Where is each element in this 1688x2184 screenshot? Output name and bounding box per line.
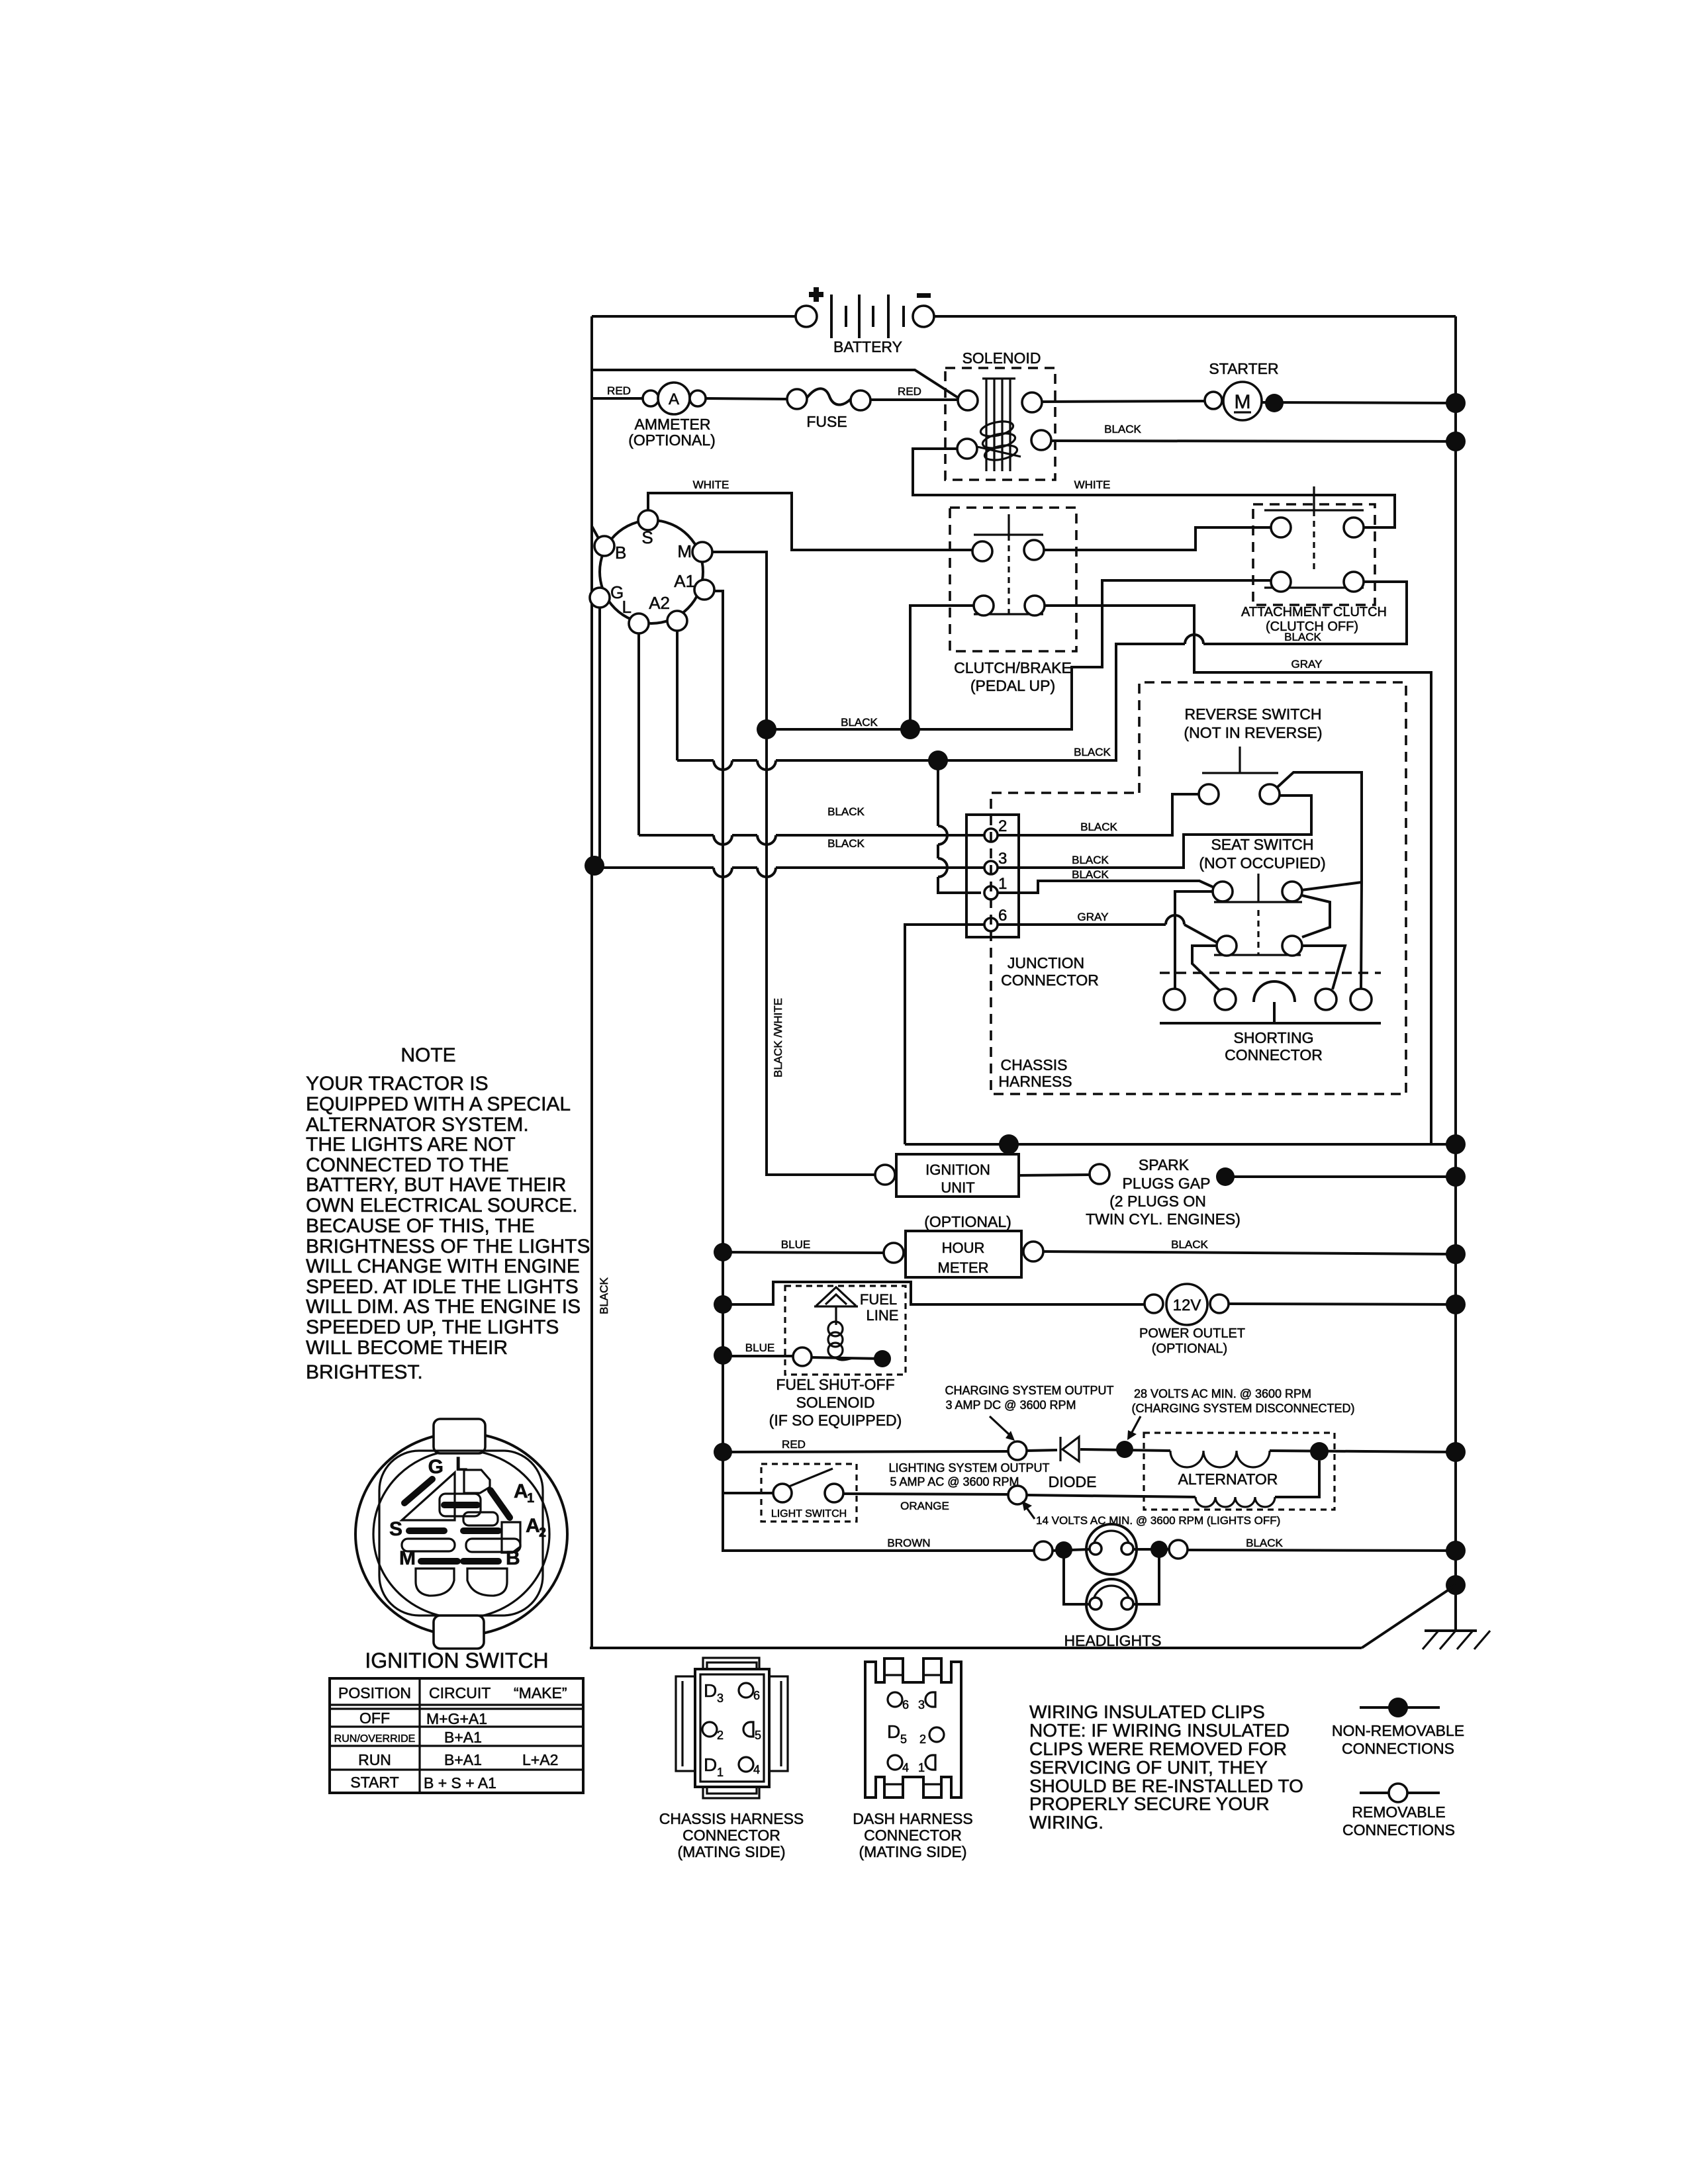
headlight DS2 xyxy=(1064,1550,1161,1649)
node M-line junction xyxy=(757,719,776,739)
svg-text:SEAT SWITCH: SEAT SWITCH xyxy=(1211,836,1313,853)
svg-text:SHORTING: SHORTING xyxy=(1234,1029,1314,1046)
label 14 volts ac min xyxy=(1022,1501,1280,1527)
svg-text:ALTERNATOR SYSTEM.: ALTERNATOR SYSTEM. xyxy=(306,1114,529,1136)
svg-text:EQUIPPED WITH A SPECIAL: EQUIPPED WITH A SPECIAL xyxy=(306,1093,571,1115)
svg-text:3: 3 xyxy=(717,1692,724,1705)
wire seat top-left to shorting pin 1 xyxy=(1175,891,1213,989)
svg-text:L: L xyxy=(455,1453,467,1475)
svg-text:IGNITION SWITCH: IGNITION SWITCH xyxy=(365,1649,548,1672)
wire chassis bottom to right border xyxy=(905,1143,1456,1146)
svg-text:A: A xyxy=(526,1515,540,1537)
wire right border vertical xyxy=(1454,316,1457,1585)
svg-text:BLACK: BLACK xyxy=(1246,1537,1283,1549)
svg-text:JUNCTION: JUNCTION xyxy=(1008,954,1084,972)
wire junction pin 1 to seat switch xyxy=(998,868,1214,893)
wire A2 terminal down xyxy=(676,631,679,760)
node right border headlight row xyxy=(1446,1541,1466,1561)
svg-text:WILL DIM. AS THE ENGINE IS: WILL DIM. AS THE ENGINE IS xyxy=(306,1296,581,1318)
svg-text:FUSE: FUSE xyxy=(806,413,847,430)
terminal M xyxy=(677,541,712,562)
svg-text:WILL BECOME THEIR: WILL BECOME THEIR xyxy=(306,1337,508,1359)
dash harness connector J4 (mating side) xyxy=(853,1659,972,1860)
wire A2 row black to junction node xyxy=(677,760,938,770)
svg-text:RED: RED xyxy=(898,385,921,398)
wiring insulated clips note xyxy=(1029,1702,1303,1833)
wire bottom rail xyxy=(590,1647,1362,1649)
node alternator input xyxy=(1116,1441,1133,1458)
node right border spark row xyxy=(1446,1167,1466,1187)
wire clutch/brake to attachment clutch (white) xyxy=(1044,527,1271,550)
svg-text:FUEL SHUT-OFF: FUEL SHUT-OFF xyxy=(776,1376,894,1393)
svg-text:HARNESS: HARNESS xyxy=(998,1073,1072,1090)
wire drop to junction pin 1 with hops xyxy=(938,760,981,893)
label 28 volts ac min xyxy=(1127,1387,1355,1440)
wire G row black to junction pin 3 xyxy=(594,837,984,877)
terminal L xyxy=(622,597,649,633)
svg-text:CHARGING SYSTEM OUTPUT: CHARGING SYSTEM OUTPUT xyxy=(945,1384,1113,1397)
svg-text:BLACK: BLACK xyxy=(1104,423,1141,435)
terminal A1 xyxy=(674,571,714,600)
terminal A2 xyxy=(649,593,687,631)
charging output connection xyxy=(1008,1441,1027,1460)
svg-text:B+A1: B+A1 xyxy=(444,1729,482,1746)
wire power outlet row xyxy=(723,1282,1145,1304)
lighting output connection xyxy=(1008,1486,1027,1504)
wire light switch tap xyxy=(723,1492,773,1494)
ignition switch connector ring xyxy=(600,520,703,623)
wire reverse switch to seat/shorting vertical xyxy=(1277,772,1362,989)
svg-text:RUN/OVERRIDE: RUN/OVERRIDE xyxy=(334,1733,416,1745)
wire G terminal down xyxy=(598,608,601,868)
label BROWN xyxy=(887,1537,930,1549)
node A1-line red tap xyxy=(714,1443,732,1461)
svg-text:3: 3 xyxy=(918,1698,925,1711)
svg-text:2: 2 xyxy=(998,817,1007,835)
svg-text:POWER OUTLET: POWER OUTLET xyxy=(1139,1326,1245,1341)
svg-text:OFF: OFF xyxy=(359,1709,390,1727)
shorting connector J2 xyxy=(1160,973,1381,1064)
svg-text:BLACK: BLACK xyxy=(1072,854,1109,866)
svg-text:A: A xyxy=(669,390,679,408)
svg-text:BLACK: BLACK xyxy=(1171,1238,1208,1251)
svg-text:CONNECTIONS: CONNECTIONS xyxy=(1342,1740,1454,1757)
label BLACK/WHITE rotated xyxy=(772,998,784,1077)
wire solenoid to starter xyxy=(1042,401,1205,402)
node headlight right xyxy=(1150,1541,1168,1558)
svg-text:ORANGE: ORANGE xyxy=(900,1500,949,1512)
svg-text:(2 PLUGS ON: (2 PLUGS ON xyxy=(1109,1193,1206,1210)
svg-text:CONNECTOR: CONNECTOR xyxy=(864,1827,962,1844)
svg-text:REMOVABLE: REMOVABLE xyxy=(1352,1803,1445,1821)
svg-text:SPEEDED UP, THE LIGHTS: SPEEDED UP, THE LIGHTS xyxy=(306,1316,559,1338)
svg-text:HOUR: HOUR xyxy=(942,1240,985,1256)
svg-text:B+A1: B+A1 xyxy=(444,1751,482,1768)
node right border hour meter row xyxy=(1446,1244,1466,1264)
light switch S6 xyxy=(761,1464,857,1522)
svg-text:CONNECTOR: CONNECTOR xyxy=(1225,1046,1323,1064)
node alternator output xyxy=(1310,1442,1329,1461)
ground symbol xyxy=(1423,1585,1490,1649)
wire black attachment clutch return xyxy=(938,582,1407,760)
wire junction pin 2 to reverse switch xyxy=(998,794,1199,835)
wire seat lower-left to shorting pin 2 xyxy=(1192,946,1221,991)
svg-text:D: D xyxy=(887,1721,900,1742)
svg-text:WIRING.: WIRING. xyxy=(1029,1812,1103,1833)
node ignition unit top tap xyxy=(999,1134,1019,1154)
svg-text:BRIGHTEST.: BRIGHTEST. xyxy=(306,1361,423,1383)
svg-text:(MATING SIDE): (MATING SIDE) xyxy=(677,1843,785,1860)
chassis harness dashed boundary xyxy=(991,682,1406,1094)
svg-text:CIRCUIT: CIRCUIT xyxy=(429,1684,491,1702)
svg-text:S: S xyxy=(389,1518,402,1540)
svg-text:AMMETER: AMMETER xyxy=(635,416,711,433)
svg-text:PROPERLY SECURE YOUR: PROPERLY SECURE YOUR xyxy=(1029,1794,1270,1814)
svg-text:DIODE: DIODE xyxy=(1049,1473,1097,1490)
wire orange light switch to alternator xyxy=(843,1494,1008,1512)
wire L row black to junction pin 2 xyxy=(639,805,984,844)
svg-text:2: 2 xyxy=(539,1525,546,1540)
svg-text:THE LIGHTS ARE NOT: THE LIGHTS ARE NOT xyxy=(306,1134,516,1156)
svg-text:(IF SO EQUIPPED): (IF SO EQUIPPED) xyxy=(769,1412,902,1429)
node attachment return junction xyxy=(928,751,948,770)
wire left border vertical (black) xyxy=(590,316,593,1648)
wire B terminal to border xyxy=(592,526,599,539)
terminal B xyxy=(594,536,626,563)
svg-text:SPARK: SPARK xyxy=(1139,1156,1190,1173)
wire ammeter to fuse xyxy=(706,398,787,399)
headlight DS1 xyxy=(1053,1524,1169,1574)
svg-text:RUN: RUN xyxy=(358,1751,391,1768)
wire seat lower-right to shorting pin 3 xyxy=(1302,946,1345,989)
wire diode to alternator xyxy=(1080,1449,1170,1451)
node G to border junction xyxy=(585,856,604,876)
power outlet 12V (optional) xyxy=(1139,1284,1245,1356)
svg-text:12V: 12V xyxy=(1173,1297,1201,1314)
chassis harness connector J3 (mating side) xyxy=(659,1658,804,1860)
spark plugs gap E1 xyxy=(1086,1156,1241,1228)
wire battery feed to solenoid xyxy=(592,370,959,398)
node headlight left xyxy=(1055,1541,1072,1559)
svg-text:NON-REMOVABLE: NON-REMOVABLE xyxy=(1332,1722,1464,1739)
wire red to ammeter xyxy=(592,385,643,398)
svg-text:IGNITION: IGNITION xyxy=(925,1161,990,1178)
wire alternator top to right border xyxy=(1270,1451,1456,1452)
svg-text:6: 6 xyxy=(902,1698,909,1711)
svg-text:UNIT: UNIT xyxy=(941,1179,974,1196)
fuel shut-off solenoid L1 xyxy=(769,1286,906,1429)
svg-text:4: 4 xyxy=(902,1761,909,1774)
svg-text:A2: A2 xyxy=(649,593,670,613)
svg-text:METER: METER xyxy=(938,1259,989,1276)
svg-text:2: 2 xyxy=(717,1729,724,1742)
svg-text:(NOT OCCUPIED): (NOT OCCUPIED) xyxy=(1199,854,1325,872)
svg-text:NOTE: NOTE xyxy=(400,1044,455,1066)
attachment clutch switch S3 (clutch off) xyxy=(1241,486,1387,634)
wire lighting circle to coil xyxy=(1027,1495,1196,1497)
svg-text:BLACK: BLACK xyxy=(841,716,878,729)
svg-text:L: L xyxy=(622,597,632,617)
svg-text:D: D xyxy=(704,1680,717,1701)
svg-text:B: B xyxy=(615,543,626,563)
wire battery positive to left border xyxy=(592,315,806,318)
svg-text:SOLENOID: SOLENOID xyxy=(796,1394,875,1411)
svg-text:ATTACHMENT CLUTCH: ATTACHMENT CLUTCH xyxy=(1241,605,1387,619)
diode D1 xyxy=(1049,1437,1097,1490)
svg-text:BLACK /WHITE: BLACK /WHITE xyxy=(772,998,784,1077)
svg-text:(CHARGING SYSTEM DISCONNECTED): (CHARGING SYSTEM DISCONNECTED) xyxy=(1131,1402,1354,1415)
svg-text:SPEED. AT IDLE THE LIGHTS: SPEED. AT IDLE THE LIGHTS xyxy=(306,1276,579,1298)
svg-text:BECAUSE OF THIS, THE: BECAUSE OF THIS, THE xyxy=(306,1215,535,1237)
svg-text:B: B xyxy=(506,1547,520,1569)
wire diagonal to bottom rail xyxy=(1362,1585,1456,1648)
svg-text:WHITE: WHITE xyxy=(693,478,729,491)
svg-text:CONNECTOR: CONNECTOR xyxy=(1001,972,1099,989)
solenoid K1 xyxy=(945,349,1055,480)
svg-text:LIGHT SWITCH: LIGHT SWITCH xyxy=(771,1508,847,1520)
wire solenoid black to right border xyxy=(1051,423,1456,441)
svg-text:S: S xyxy=(641,527,653,547)
svg-text:G: G xyxy=(428,1456,444,1478)
svg-text:BLACK: BLACK xyxy=(598,1277,610,1314)
svg-text:BLACK: BLACK xyxy=(1074,746,1111,758)
node right border red row xyxy=(1446,1442,1466,1462)
svg-text:BROWN: BROWN xyxy=(887,1537,930,1549)
svg-text:BRIGHTNESS OF THE LIGHTS: BRIGHTNESS OF THE LIGHTS xyxy=(306,1236,590,1257)
node right border starter row xyxy=(1446,393,1466,413)
svg-text:YOUR TRACTOR IS: YOUR TRACTOR IS xyxy=(306,1073,489,1095)
svg-text:ALTERNATOR: ALTERNATOR xyxy=(1178,1471,1278,1488)
svg-text:CLIPS WERE REMOVED FOR: CLIPS WERE REMOVED FOR xyxy=(1029,1739,1287,1759)
wire fuse to solenoid (red) xyxy=(870,385,958,400)
wire ignition unit to spark gap xyxy=(1019,1175,1090,1175)
svg-text:28 VOLTS AC MIN. @ 3600 RPM: 28 VOLTS AC MIN. @ 3600 RPM xyxy=(1134,1387,1311,1400)
svg-text:BLACK: BLACK xyxy=(1080,821,1117,833)
node right border solenoid black row xyxy=(1446,432,1466,451)
label lighting system output xyxy=(888,1461,1049,1488)
svg-text:BLUE: BLUE xyxy=(745,1342,774,1354)
svg-text:(OPTIONAL): (OPTIONAL) xyxy=(924,1213,1011,1230)
wire spark node to right border xyxy=(1225,1175,1456,1178)
wire S terminal white to clutch/brake xyxy=(648,478,972,550)
svg-text:(PEDAL UP): (PEDAL UP) xyxy=(970,677,1055,694)
note text block xyxy=(306,1044,590,1383)
svg-text:SERVICING OF UNIT, THEY: SERVICING OF UNIT, THEY xyxy=(1029,1757,1268,1778)
svg-text:M: M xyxy=(677,541,692,561)
node clutch/brake drop junction xyxy=(900,719,920,739)
wire red charging row xyxy=(723,1438,1008,1452)
svg-text:1: 1 xyxy=(717,1766,724,1779)
svg-text:RED: RED xyxy=(782,1438,806,1451)
headlight connection right xyxy=(1169,1540,1188,1559)
ignition switch position table xyxy=(330,1678,583,1793)
node starter output (non-removable) xyxy=(1265,394,1284,412)
hour meter M2 (optional) xyxy=(884,1213,1043,1277)
svg-text:REVERSE SWITCH: REVERSE SWITCH xyxy=(1184,705,1321,723)
fuse F1 xyxy=(787,388,870,430)
svg-text:FUEL: FUEL xyxy=(860,1291,897,1308)
svg-text:6: 6 xyxy=(998,907,1007,925)
wire solenoid white to attachment clutch xyxy=(913,449,1395,527)
node A1-line outlet tap xyxy=(714,1295,732,1314)
svg-text:(OPTIONAL): (OPTIONAL) xyxy=(628,432,716,449)
svg-text:RED: RED xyxy=(607,385,631,397)
wire A1 terminal down to lighting rows xyxy=(714,591,1034,1551)
clutch/brake switch S2 (pedal up) xyxy=(950,508,1076,694)
svg-text:CONNECTIONS: CONNECTIONS xyxy=(1342,1821,1455,1839)
svg-text:CONNECTED TO THE: CONNECTED TO THE xyxy=(306,1154,509,1176)
svg-text:BATTERY, BUT HAVE THEIR: BATTERY, BUT HAVE THEIR xyxy=(306,1174,566,1196)
svg-text:BLUE: BLUE xyxy=(781,1238,810,1251)
ignition unit U1 xyxy=(875,1154,1019,1197)
reverse switch S4 (not in reverse) xyxy=(1184,705,1322,804)
svg-text:BLACK: BLACK xyxy=(827,837,865,850)
svg-text:M: M xyxy=(1235,391,1251,413)
svg-text:LINE: LINE xyxy=(867,1307,899,1324)
svg-text:SOLENOID: SOLENOID xyxy=(962,349,1041,367)
node right border ground corner xyxy=(1446,1575,1466,1595)
wire junction pin 6 gray to chassis bottom xyxy=(905,925,984,1144)
svg-text:6: 6 xyxy=(753,1689,760,1702)
svg-text:NOTE: IF WIRING INSULATED: NOTE: IF WIRING INSULATED xyxy=(1029,1720,1289,1741)
terminal G xyxy=(590,582,624,608)
svg-text:D: D xyxy=(704,1754,717,1775)
battery BT1 xyxy=(796,287,934,355)
wire blue to hour meter xyxy=(723,1238,884,1253)
svg-text:A1: A1 xyxy=(674,571,695,591)
svg-text:(NOT IN REVERSE): (NOT IN REVERSE) xyxy=(1184,724,1322,741)
svg-text:(OPTIONAL): (OPTIONAL) xyxy=(1152,1342,1227,1356)
wire seat top-right jog to lower-right xyxy=(1302,895,1330,937)
svg-text:BLACK: BLACK xyxy=(827,805,865,818)
legend removable connection xyxy=(1342,1784,1455,1839)
svg-text:TWIN CYL. ENGINES): TWIN CYL. ENGINES) xyxy=(1086,1210,1241,1228)
wire black M-line to attachment path xyxy=(767,580,1271,729)
seat switch S5 (not occupied) xyxy=(1199,836,1325,956)
wire battery negative to right border xyxy=(934,315,1456,318)
svg-text:START: START xyxy=(350,1774,399,1791)
starter M1 xyxy=(1205,360,1279,420)
svg-text:CHASSIS HARNESS: CHASSIS HARNESS xyxy=(659,1810,804,1827)
svg-text:(MATING SIDE): (MATING SIDE) xyxy=(859,1843,966,1860)
svg-text:1: 1 xyxy=(998,875,1007,893)
svg-text:CLUTCH/BRAKE: CLUTCH/BRAKE xyxy=(954,659,1072,676)
svg-text:WILL CHANGE WITH ENGINE: WILL CHANGE WITH ENGINE xyxy=(306,1255,580,1277)
svg-text:DASH HARNESS: DASH HARNESS xyxy=(853,1810,972,1827)
wire blue to fuel solenoid xyxy=(723,1342,793,1356)
svg-text:STARTER: STARTER xyxy=(1209,360,1278,377)
svg-text:L+A2: L+A2 xyxy=(522,1751,558,1768)
svg-text:OWN ELECTRICAL SOURCE.: OWN ELECTRICAL SOURCE. xyxy=(306,1195,578,1216)
alternator G1 xyxy=(1144,1433,1335,1510)
svg-text:B + S + A1: B + S + A1 xyxy=(424,1774,496,1792)
svg-text:BATTERY: BATTERY xyxy=(833,338,902,355)
wire junction pin 6 gray to seat switch xyxy=(998,911,1218,943)
wire M terminal down (black/white) to ignition unit xyxy=(712,552,875,1175)
svg-text:3: 3 xyxy=(998,850,1007,868)
wire L terminal down xyxy=(637,633,640,835)
label charging system output xyxy=(945,1384,1113,1441)
node right border outlet row xyxy=(1446,1295,1466,1314)
wire hour meter black to right border xyxy=(1043,1238,1456,1254)
svg-text:5: 5 xyxy=(755,1729,761,1742)
wire clutch/brake lower-left to M-line node xyxy=(910,606,974,729)
svg-text:CONNECTOR: CONNECTOR xyxy=(682,1827,780,1844)
svg-text:CHASSIS: CHASSIS xyxy=(1001,1056,1068,1073)
node A1-line hour meter tap xyxy=(714,1243,732,1261)
node A1-line fuel tap xyxy=(714,1346,732,1365)
svg-text:M+G+A1: M+G+A1 xyxy=(426,1710,487,1727)
svg-text:1: 1 xyxy=(527,1491,534,1506)
wire gray clutch/brake to seat circuit xyxy=(1045,606,1431,1144)
svg-text:GRAY: GRAY xyxy=(1291,658,1323,670)
wire alternator lighting tail up xyxy=(1275,1461,1319,1497)
wire diagonal into seat top-right xyxy=(1301,882,1362,890)
svg-text:1: 1 xyxy=(918,1761,925,1774)
svg-text:4: 4 xyxy=(753,1763,760,1776)
svg-text:POSITION: POSITION xyxy=(338,1684,411,1702)
svg-text:3 AMP DC @ 3600 RPM: 3 AMP DC @ 3600 RPM xyxy=(945,1398,1076,1412)
node right border chassis row xyxy=(1446,1134,1466,1154)
wire headlight row black to right border xyxy=(1188,1537,1456,1551)
terminal S xyxy=(638,510,658,547)
svg-text:5 AMP AC @ 3600 RPM: 5 AMP AC @ 3600 RPM xyxy=(890,1475,1019,1488)
svg-text:“MAKE”: “MAKE” xyxy=(514,1684,567,1702)
ignition switch rear view xyxy=(355,1419,567,1672)
legend non-removable connection xyxy=(1332,1698,1464,1757)
svg-text:A: A xyxy=(514,1480,528,1502)
node spark output xyxy=(1216,1167,1235,1186)
svg-text:BLACK: BLACK xyxy=(1072,868,1109,881)
svg-text:WIRING INSULATED CLIPS: WIRING INSULATED CLIPS xyxy=(1029,1702,1265,1722)
wire charging to diode xyxy=(1027,1450,1057,1451)
svg-text:WHITE: WHITE xyxy=(1074,478,1111,491)
headlight connection left xyxy=(1034,1541,1053,1560)
wire power outlet to right border xyxy=(1229,1304,1456,1304)
label BLACK rotated on left border xyxy=(598,1277,610,1314)
svg-text:2: 2 xyxy=(919,1733,926,1746)
svg-text:14 VOLTS AC MIN. @ 3600 RPM (L: 14 VOLTS AC MIN. @ 3600 RPM (LIGHTS OFF) xyxy=(1036,1514,1280,1527)
node fuel solenoid connection xyxy=(874,1350,891,1367)
wire junction pin 3 to reverse switch right xyxy=(998,796,1311,868)
wire starter to right border xyxy=(1262,402,1456,403)
junction connector J1 xyxy=(966,815,1099,989)
svg-text:M: M xyxy=(399,1547,416,1569)
svg-text:BLACK: BLACK xyxy=(1284,631,1321,643)
svg-text:LIGHTING SYSTEM OUTPUT: LIGHTING SYSTEM OUTPUT xyxy=(888,1461,1049,1475)
svg-text:5: 5 xyxy=(900,1733,907,1746)
svg-text:PLUGS GAP: PLUGS GAP xyxy=(1123,1175,1211,1192)
svg-text:GRAY: GRAY xyxy=(1078,911,1109,923)
ammeter A (optional) xyxy=(628,383,716,449)
